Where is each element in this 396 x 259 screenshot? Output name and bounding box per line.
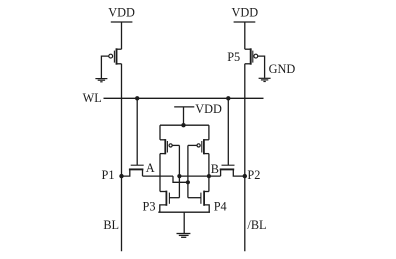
transistor P2 (right access NMOS): [220, 165, 245, 176]
transistor P5 (/BL load PMOS): [245, 48, 258, 64]
node A step down segment: [173, 176, 188, 182]
wire: rail to left pull-up source: [159, 125, 161, 140]
svg-text:WL: WL: [83, 91, 102, 105]
wire: load gate to ground (top-left): [101, 56, 108, 78]
wire: cross-couple vertical V1 (to node B): [178, 145, 180, 197]
svg-text:/BL: /BL: [247, 218, 266, 232]
junction dot: VDD stem to source rail: [181, 123, 185, 127]
wire: VDD bar down to load transistor: [121, 22, 123, 49]
wire: right pull-up drain / P4 drain column: [208, 154, 210, 192]
ground symbol top-right: [259, 78, 271, 81]
svg-text:GND: GND: [269, 62, 296, 76]
VDD supply bar top-right: [234, 21, 256, 23]
svg-text:BL: BL: [103, 218, 119, 232]
wire: rail to right pull-up source: [208, 125, 210, 140]
wire: cell VDD source rail: [160, 124, 209, 126]
wire: right pull-up gate lead: [188, 144, 197, 146]
ground symbol top-left: [95, 79, 107, 82]
wire: left pull-up gate lead: [172, 144, 179, 146]
wire: P5 gate to ground: [258, 56, 265, 78]
svg-text:VDD: VDD: [231, 5, 258, 19]
junction dot: node B to V1: [177, 174, 181, 178]
junction dot: WL to P1 gate: [135, 96, 139, 100]
transistor P4 (right pull-down NMOS): [188, 191, 209, 213]
node A wire: [143, 175, 174, 177]
node B wire: [179, 175, 220, 177]
junction dot: node A to V2: [186, 180, 190, 184]
transistor: left pull-up PMOS (unlabeled): [160, 139, 172, 154]
wire: VDD bar down to P5: [244, 22, 246, 49]
wire: left pull-up drain / P3 drain column: [159, 154, 161, 192]
svg-text:VDD: VDD: [108, 6, 135, 20]
transistor P3 (left pull-down NMOS): [160, 191, 180, 213]
svg-text:P5: P5: [227, 50, 240, 64]
wire: WL down to P1 gate: [136, 98, 138, 165]
wire: rail down to cell ground: [183, 212, 185, 233]
transistor: BL load PMOS (unlabeled, top-left): [109, 48, 122, 64]
wire: cross-couple vertical V2 (to node A): [187, 145, 189, 197]
svg-text:P1: P1: [102, 168, 115, 182]
svg-text:P4: P4: [214, 200, 227, 214]
svg-text:VDD: VDD: [195, 102, 222, 116]
wire: /BL column (P5 to bottom): [244, 64, 246, 251]
wire: WL down to P2 gate: [227, 98, 229, 165]
transistor P1 (left access NMOS): [122, 165, 144, 176]
junction dot: BL to P1: [119, 174, 123, 178]
svg-text:A: A: [146, 161, 155, 175]
junction dot: node B to right pull-up drain: [207, 174, 211, 178]
junction dot: /BL to P2: [243, 174, 247, 178]
wire WL word line: [104, 97, 264, 99]
wire: cell VDD stem: [183, 107, 185, 125]
VDD supply bar top-left: [111, 21, 133, 23]
junction dot: WL to P2 gate: [226, 96, 230, 100]
svg-text:P3: P3: [143, 200, 156, 214]
ground symbol cell: [177, 234, 191, 238]
VDD supply bar cell: [174, 106, 194, 108]
transistor: right pull-up PMOS (unlabeled): [197, 139, 209, 154]
cell ground rail: [158, 211, 210, 213]
svg-text:B: B: [211, 162, 219, 176]
svg-text:P2: P2: [247, 168, 260, 182]
wire: BL column (load to bottom): [121, 64, 123, 251]
